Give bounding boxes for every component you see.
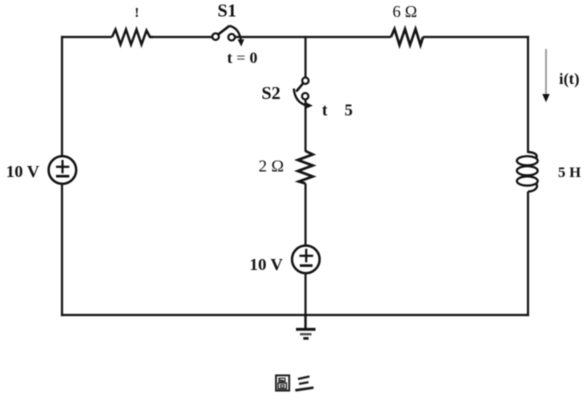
svg-text:i(t): i(t) <box>559 71 579 88</box>
wire left side upper (top-left corner down to source V1) <box>61 36 63 157</box>
voltage source V1 10V <box>49 156 77 184</box>
wire between left resistor and switch S1 <box>153 36 213 38</box>
svg-text:5 H: 5 H <box>558 165 581 181</box>
wire middle branch S2 to 2-ohm resistor <box>304 99 306 152</box>
inductor 5H <box>517 152 538 192</box>
svg-text:t: t <box>322 101 328 120</box>
wire left side lower (source V1 down to bottom-left corner) <box>61 184 63 316</box>
svg-text:S2: S2 <box>262 83 281 103</box>
wire middle branch source V2 to bottom wire <box>304 273 306 315</box>
svg-text:2 Ω: 2 Ω <box>259 157 284 176</box>
svg-text:10 V: 10 V <box>250 255 284 274</box>
voltage source V2 10V <box>292 246 320 274</box>
svg-text:!: ! <box>135 6 140 21</box>
resistor 6-ohm <box>391 29 423 45</box>
ground <box>296 315 316 338</box>
wire bottom <box>61 314 529 316</box>
switch S1 <box>212 26 244 47</box>
resistor 2-ohm <box>298 151 313 184</box>
wire from 6-ohm resistor to top-right corner <box>423 36 529 38</box>
svg-text:S1: S1 <box>218 1 237 21</box>
svg-text:t = 0: t = 0 <box>227 50 257 67</box>
svg-text:5: 5 <box>345 101 353 120</box>
resistor R-left (unlabeled) <box>112 30 153 45</box>
wire between S1 and 6-ohm resistor <box>235 36 391 38</box>
wire middle branch from top junction down to switch S2 <box>304 36 306 78</box>
svg-text:10 V: 10 V <box>6 162 40 181</box>
switch S2 <box>294 78 313 109</box>
wire right side upper (top-right corner to inductor) <box>527 36 529 153</box>
caption figure-3 (Chinese: tu san) drawn as strokes <box>276 375 314 390</box>
arrow i(t) current direction <box>542 49 549 102</box>
wire middle branch 2-ohm to source V2 <box>304 184 306 247</box>
svg-text:6 Ω: 6 Ω <box>393 2 418 21</box>
wire right side lower (inductor to bottom-right corner) <box>527 192 529 317</box>
wire top-left segment <box>62 36 112 38</box>
